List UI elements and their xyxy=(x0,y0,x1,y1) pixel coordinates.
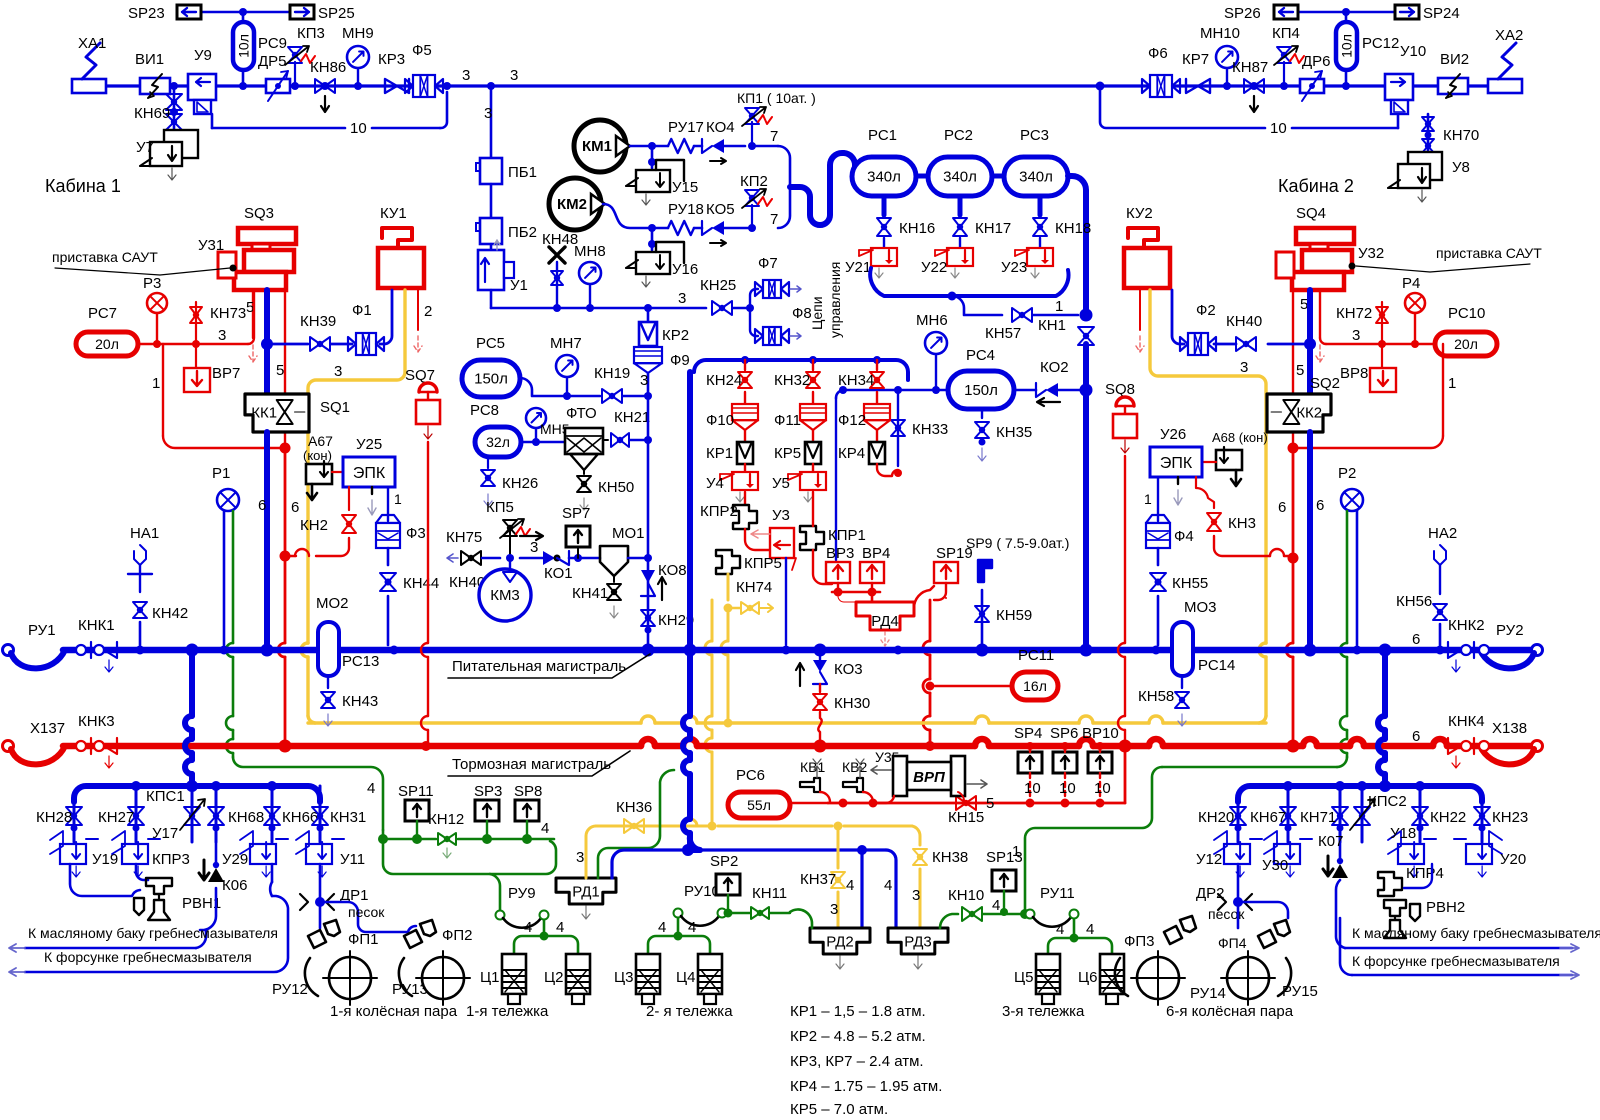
regulator RD3 xyxy=(888,928,948,969)
manifold right xyxy=(1238,780,1482,802)
separator MO3 RC14 xyxy=(1172,599,1235,676)
wire yellow x712 xyxy=(705,600,712,826)
svg-text:Р3: Р3 xyxy=(143,275,161,292)
wire PB1-PB2 xyxy=(490,184,493,218)
svg-text:РУ15: РУ15 xyxy=(1282,983,1318,1000)
svg-text:КН32: КН32 xyxy=(774,372,810,389)
svg-text:У10: У10 xyxy=(1400,43,1426,60)
svg-text:КН43: КН43 xyxy=(342,693,378,710)
wire SQ3 blue artery xyxy=(264,290,270,394)
svg-text:КНК3: КНК3 xyxy=(78,713,115,730)
svg-text:5: 5 xyxy=(986,795,994,812)
valve KN21 xyxy=(603,409,652,447)
wire RD1 yellow xyxy=(576,819,717,878)
green manifold left xyxy=(378,820,554,844)
svg-text:SP8: SP8 xyxy=(514,783,542,800)
svg-text:4: 4 xyxy=(524,919,532,936)
valve KN73 xyxy=(190,302,246,344)
svg-text:РУ14: РУ14 xyxy=(1190,985,1226,1002)
svg-text:КН26: КН26 xyxy=(502,475,538,492)
svg-text:ВИ1: ВИ1 xyxy=(135,51,164,68)
svg-text:КН74: КН74 xyxy=(736,579,772,596)
svg-text:4: 4 xyxy=(367,780,375,797)
svg-text:РС14: РС14 xyxy=(1198,657,1235,674)
wheel pair 1 right xyxy=(416,951,470,1005)
sensor SP26 xyxy=(1224,5,1298,22)
svg-text:КН67: КН67 xyxy=(1250,809,1286,826)
relay KPR5 xyxy=(716,550,782,600)
sensor SP7 xyxy=(562,505,600,562)
artery x1086 xyxy=(1083,344,1089,648)
svg-text:КН38: КН38 xyxy=(932,849,968,866)
red 2 vent KU2 xyxy=(1136,290,1144,352)
svg-text:Ц5: Ц5 xyxy=(1014,969,1033,986)
filter F1 xyxy=(348,290,392,355)
wire U1 to y308 xyxy=(490,290,493,308)
wire RC9 stem xyxy=(242,12,245,22)
sensor SP2 xyxy=(710,853,740,918)
svg-text:У32: У32 xyxy=(1358,245,1384,262)
valve KN24 xyxy=(706,360,752,404)
wire RC3 drop xyxy=(1038,196,1043,215)
cylinder C3 xyxy=(614,954,660,1004)
pipe RC8 line xyxy=(521,438,565,446)
svg-text:20л: 20л xyxy=(95,336,119,352)
check valve KO8 xyxy=(641,558,687,648)
wire SQ3 red5 right xyxy=(276,290,285,445)
pipe RC5 line xyxy=(520,378,600,400)
throttle DR5 xyxy=(258,53,290,101)
unit SQ3 SAUT xyxy=(198,205,296,290)
svg-text:3: 3 xyxy=(334,363,342,380)
svg-text:КМ2: КМ2 xyxy=(557,196,587,213)
device VI1 xyxy=(135,51,170,98)
green feeder right xyxy=(1012,767,1162,910)
svg-text:РС5: РС5 xyxy=(476,335,505,352)
svg-text:К масляному баку гребнесмазыва: К масляному баку гребнесмазывателя xyxy=(1352,925,1600,941)
valve KN31 xyxy=(312,786,366,842)
svg-text:3: 3 xyxy=(462,67,470,84)
red x1293 down xyxy=(1278,452,1299,742)
hose RU11 xyxy=(1026,885,1079,927)
svg-text:КП4: КП4 xyxy=(1272,25,1300,42)
svg-text:У16: У16 xyxy=(672,261,698,278)
valve KN16 xyxy=(877,218,935,248)
svg-text:РС2: РС2 xyxy=(944,127,973,144)
svg-text:КН27: КН27 xyxy=(98,809,134,826)
wire 10-line right xyxy=(1100,86,1398,137)
svg-text:4: 4 xyxy=(884,877,892,894)
svg-text:КУ2: КУ2 xyxy=(1126,205,1153,222)
wire RD1 green xyxy=(598,770,674,878)
svg-text:Р4: Р4 xyxy=(1402,275,1420,292)
svg-text:340л: 340л xyxy=(943,169,977,186)
svg-text:6: 6 xyxy=(1316,497,1324,514)
svg-text:SQ3: SQ3 xyxy=(244,205,274,222)
valve KN12 xyxy=(428,811,464,858)
svg-text:КПР2: КПР2 xyxy=(700,503,738,520)
svg-text:КН50: КН50 xyxy=(598,479,634,496)
svg-text:КВ1: КВ1 xyxy=(800,759,825,775)
device U1 xyxy=(478,240,528,294)
valve KN57 xyxy=(985,298,1078,342)
svg-text:КР4: КР4 xyxy=(838,445,865,462)
unit U26 EPK xyxy=(1150,426,1202,477)
svg-text:РС4: РС4 xyxy=(966,347,995,364)
cylinder C5 xyxy=(1014,954,1060,1004)
svg-text:ХА2: ХА2 xyxy=(1495,27,1523,44)
valve KN34 xyxy=(838,360,884,404)
svg-text:РУ12: РУ12 xyxy=(272,981,308,998)
tank RC11 16l xyxy=(926,647,1059,700)
valve KN59 xyxy=(975,590,1032,645)
blue y850 to RD2 RD3 xyxy=(700,845,896,928)
svg-text:КН39: КН39 xyxy=(300,313,336,330)
valve KN44 xyxy=(380,548,439,645)
svg-text:3: 3 xyxy=(510,67,518,84)
valve KN36 xyxy=(616,799,652,833)
svg-text:4: 4 xyxy=(688,919,696,936)
unit KU1 xyxy=(378,205,424,288)
filter F7 xyxy=(750,255,801,308)
svg-text:SP9 ( 7.5-9.0ат.): SP9 ( 7.5-9.0ат.) xyxy=(966,535,1069,551)
svg-text:ПБ2: ПБ2 xyxy=(508,224,537,241)
svg-text:КНК2: КНК2 xyxy=(1448,617,1485,634)
hose RU1 xyxy=(3,622,66,668)
valve KN75 xyxy=(446,529,500,591)
svg-text:Ф7: Ф7 xyxy=(758,255,778,272)
svg-text:7: 7 xyxy=(770,211,778,228)
filter F9 xyxy=(634,347,690,392)
svg-text:ЭПК: ЭПК xyxy=(353,465,386,482)
valve KN22 xyxy=(1412,786,1466,842)
nozzle HA2 xyxy=(1428,525,1457,594)
node KM3 xyxy=(506,554,514,562)
svg-text:песок: песок xyxy=(348,904,385,920)
wire P2 green xyxy=(1340,511,1347,757)
svg-text:РС1: РС1 xyxy=(868,127,897,144)
check valve KO4 xyxy=(694,119,745,164)
wire RD1 blue out xyxy=(612,844,694,878)
svg-text:10л: 10л xyxy=(236,34,252,58)
unit U25 EPK xyxy=(343,436,395,487)
filter F11 xyxy=(774,404,826,442)
svg-text:Ф10: Ф10 xyxy=(706,412,734,429)
solenoid U5 xyxy=(772,472,826,502)
svg-text:У21: У21 xyxy=(845,259,871,276)
svg-text:КН19: КН19 xyxy=(594,365,630,382)
svg-text:3: 3 xyxy=(830,901,838,918)
svg-text:ВР4: ВР4 xyxy=(862,545,890,562)
wire 1-loop right xyxy=(1288,344,1457,454)
tank RC6 55l xyxy=(728,767,828,818)
svg-text:РС9: РС9 xyxy=(258,35,287,52)
svg-text:приставка САУТ: приставка САУТ xyxy=(52,249,158,265)
svg-text:К форсунке гребнесмазывателя: К форсунке гребнесмазывателя xyxy=(1352,953,1560,969)
safety valve KP4 xyxy=(1272,25,1304,86)
svg-text:Ц6: Ц6 xyxy=(1078,969,1097,986)
svg-text:К форсунке гребнесмазывателя: К форсунке гребнесмазывателя xyxy=(44,949,252,965)
svg-text:КПР3: КПР3 xyxy=(152,851,190,868)
svg-text:КО3: КО3 xyxy=(834,661,863,678)
svg-text:КВ2: КВ2 xyxy=(842,759,867,775)
svg-text:10: 10 xyxy=(1059,780,1076,797)
tank RC7 20l xyxy=(76,305,138,356)
svg-text:КН11: КН11 xyxy=(752,885,787,902)
svg-text:ФП1: ФП1 xyxy=(348,931,379,948)
greaser nozzle line R xyxy=(1340,918,1579,979)
svg-text:4: 4 xyxy=(992,897,1000,914)
label feed main xyxy=(448,654,650,678)
svg-text:7: 7 xyxy=(770,128,778,145)
svg-text:МО1: МО1 xyxy=(612,525,645,542)
yellow main pipe xyxy=(308,716,1266,723)
svg-text:КР5: КР5 xyxy=(774,445,801,462)
svg-text:КН3: КН3 xyxy=(1228,515,1256,532)
svg-text:МН7: МН7 xyxy=(550,335,582,352)
svg-text:(кон): (кон) xyxy=(303,448,332,463)
wire P2 blue xyxy=(1356,511,1359,645)
svg-text:3: 3 xyxy=(640,372,648,389)
svg-text:6: 6 xyxy=(1278,499,1286,516)
pipe y390 RC4 xyxy=(836,386,948,398)
svg-text:У26: У26 xyxy=(1160,426,1186,443)
reducer KR5 xyxy=(774,442,821,472)
coupling KNK1 xyxy=(76,617,117,672)
svg-text:КН15: КН15 xyxy=(948,809,984,826)
svg-text:3: 3 xyxy=(678,290,686,307)
pipe red y803 xyxy=(828,746,1125,808)
sensors SP11 SP3 SP8 xyxy=(398,783,542,839)
pipe y360 manifold xyxy=(694,356,908,380)
safety valve KP5 xyxy=(486,499,530,558)
hose X138 xyxy=(1480,720,1543,764)
nozzle FP1 xyxy=(308,920,379,948)
wire U3 blue down xyxy=(785,558,787,645)
svg-text:Ф12: Ф12 xyxy=(838,412,866,429)
solenoid U17 KPR3 xyxy=(112,825,190,877)
compressor KM3 xyxy=(479,558,531,621)
pipe RC10 line xyxy=(1320,327,1435,348)
valve KN86 xyxy=(310,59,346,112)
wire SP19 down xyxy=(923,583,946,742)
yellow riser left xyxy=(301,290,405,716)
svg-text:КН17: КН17 xyxy=(975,220,1011,237)
green main pipe right xyxy=(1162,757,1347,767)
greaser tank line R xyxy=(1336,880,1600,952)
valve KN18 xyxy=(1033,218,1091,248)
svg-text:РД2: РД2 xyxy=(826,934,854,951)
wire 7-loop xyxy=(752,128,790,228)
hose RU14 xyxy=(1115,958,1226,1002)
svg-text:КР1 – 1,5 – 1.8 атм.: КР1 – 1,5 – 1.8 атм. xyxy=(790,1003,926,1020)
device VR7 xyxy=(184,344,240,392)
gauge MN6 xyxy=(916,312,948,390)
svg-text:4: 4 xyxy=(846,877,854,894)
device U8 xyxy=(1388,152,1470,202)
svg-text:4: 4 xyxy=(1056,921,1064,938)
valve KN28 xyxy=(36,798,82,842)
safety valve KP2 xyxy=(740,173,772,228)
valve KN66 xyxy=(264,786,318,842)
gauge P4 xyxy=(1402,275,1425,344)
pipe RC7 line xyxy=(138,290,254,348)
svg-text:МН9: МН9 xyxy=(342,25,374,42)
svg-text:SQ7: SQ7 xyxy=(405,367,435,384)
label tsepi upravleniya xyxy=(809,262,843,338)
valve KN32 xyxy=(774,360,820,404)
svg-text:Х138: Х138 xyxy=(1492,720,1527,737)
unit SQ4 SAUT xyxy=(1276,205,1384,290)
green RU9 branch xyxy=(490,874,500,910)
valve KN48 xyxy=(542,231,578,308)
valve KN41 xyxy=(572,576,621,618)
svg-text:РУ9: РУ9 xyxy=(508,885,536,902)
label pristavka SAUT L xyxy=(52,249,237,275)
svg-text:КН55: КН55 xyxy=(1172,575,1208,592)
wire P1 green xyxy=(226,511,233,757)
svg-text:КО5: КО5 xyxy=(706,201,735,218)
blue artery x1385 down xyxy=(1378,650,1385,786)
svg-text:РУ18: РУ18 xyxy=(668,201,704,218)
cylinder C1 xyxy=(480,954,526,1004)
wire yellow KN37 xyxy=(800,826,845,928)
hose RU2 xyxy=(1480,622,1543,668)
valve KPS1 xyxy=(146,786,205,842)
svg-text:ВИ2: ВИ2 xyxy=(1440,51,1469,68)
wire EPK vent R xyxy=(1174,477,1182,505)
cylinder C6 xyxy=(1078,954,1124,1004)
svg-text:КН71: КН71 xyxy=(1300,809,1336,826)
device U16 xyxy=(626,228,698,287)
valve KN40 xyxy=(1214,313,1316,351)
svg-text:У3: У3 xyxy=(772,507,790,524)
svg-text:РД3: РД3 xyxy=(904,934,932,951)
svg-text:КП2: КП2 xyxy=(740,173,768,190)
svg-text:150л: 150л xyxy=(474,371,508,388)
throttle DR6 xyxy=(1300,53,1331,101)
nozzle FP2 xyxy=(404,920,473,948)
svg-text:КР2 – 4.8 – 5.2 атм.: КР2 – 4.8 – 5.2 атм. xyxy=(790,1028,926,1045)
svg-text:КН23: КН23 xyxy=(1492,809,1528,826)
svg-text:Ц1: Ц1 xyxy=(480,969,499,986)
svg-text:4: 4 xyxy=(556,919,564,936)
svg-text:РС3: РС3 xyxy=(1020,127,1049,144)
svg-text:Ф1: Ф1 xyxy=(352,302,372,319)
filter F6 xyxy=(1142,45,1180,97)
main pipe y85 right xyxy=(1100,82,1488,90)
svg-text:ФП3: ФП3 xyxy=(1124,933,1155,950)
svg-text:10л: 10л xyxy=(1339,34,1355,58)
svg-text:КН20: КН20 xyxy=(1198,809,1234,826)
svg-text:КН36: КН36 xyxy=(616,799,652,816)
svg-text:КО4: КО4 xyxy=(706,119,735,136)
valve KN50 xyxy=(577,470,634,510)
tank RC2 340l xyxy=(928,127,992,196)
svg-text:КН22: КН22 xyxy=(1430,809,1466,826)
svg-text:SP26: SP26 xyxy=(1224,5,1261,22)
svg-text:КР1: КР1 xyxy=(706,445,733,462)
compressor KM2 xyxy=(549,178,605,230)
valve KN29 xyxy=(641,610,694,634)
svg-text:Кабина 2: Кабина 2 xyxy=(1278,176,1354,196)
svg-text:РД4: РД4 xyxy=(871,613,899,630)
blue artery x192 down xyxy=(185,650,192,786)
wire K06 to tank line xyxy=(200,888,216,930)
svg-text:5: 5 xyxy=(276,362,284,379)
svg-text:КМ1: КМ1 xyxy=(582,138,612,155)
solenoid U20 xyxy=(1454,831,1526,877)
svg-text:SQ1: SQ1 xyxy=(320,399,350,416)
valve KN10 xyxy=(948,887,1030,921)
svg-text:6: 6 xyxy=(1412,631,1420,648)
red 2 vent KU1 xyxy=(414,290,432,352)
wire U5 down xyxy=(813,492,832,584)
solenoid U21 xyxy=(845,248,897,278)
valve KN68 xyxy=(208,786,264,842)
wire SQ4 red5 right xyxy=(1300,290,1324,362)
svg-text:ХА1: ХА1 xyxy=(78,35,106,52)
svg-text:КМ3: КМ3 xyxy=(490,587,520,604)
antenna XA2 xyxy=(1488,27,1523,93)
svg-text:340л: 340л xyxy=(867,169,901,186)
valve KN27 xyxy=(98,786,144,842)
valve KN67 xyxy=(1250,786,1296,842)
coupling KNK4 xyxy=(1448,713,1489,768)
svg-text:3: 3 xyxy=(1240,359,1248,376)
device A68 xyxy=(1212,430,1268,486)
safety valve KP1 xyxy=(737,90,816,146)
gauge MN5 xyxy=(526,408,570,442)
unit PB1 xyxy=(476,158,537,184)
valve KN19 xyxy=(594,365,652,403)
svg-text:4: 4 xyxy=(1086,921,1094,938)
wire RC1 drop xyxy=(882,196,887,215)
device KV1 xyxy=(800,759,830,802)
svg-text:ВР10: ВР10 xyxy=(1082,725,1119,742)
svg-text:3: 3 xyxy=(912,887,920,904)
device VR8 xyxy=(1340,344,1396,392)
svg-text:SQ8: SQ8 xyxy=(1105,381,1135,398)
svg-text:1: 1 xyxy=(394,491,402,507)
sensor SP19 xyxy=(914,545,973,608)
wire 1-loop left xyxy=(152,344,291,454)
svg-text:КН72: КН72 xyxy=(1336,305,1372,322)
solenoid U30 xyxy=(1262,831,1312,877)
filter F8 xyxy=(750,305,812,345)
node artery top xyxy=(1080,309,1093,322)
wire 10-line left xyxy=(212,82,451,137)
device A67 xyxy=(303,433,333,500)
svg-text:16л: 16л xyxy=(1023,678,1047,694)
svg-text:КН87: КН87 xyxy=(1232,59,1268,76)
svg-text:КН44: КН44 xyxy=(403,575,439,592)
hose X137 xyxy=(3,720,66,764)
filter F2 xyxy=(1172,290,1216,355)
regulator RD2 xyxy=(810,928,870,969)
svg-text:3: 3 xyxy=(218,327,226,344)
wire yellow KN38 xyxy=(912,843,968,928)
relay KPR1 xyxy=(800,526,866,550)
wire U11 down xyxy=(315,864,325,907)
svg-text:КН25: КН25 xyxy=(700,277,736,294)
greaser nozzle line L xyxy=(9,864,288,976)
regulator RD4 xyxy=(856,602,914,646)
svg-text:Кабина 1: Кабина 1 xyxy=(45,176,121,196)
svg-text:ФП4: ФП4 xyxy=(1218,935,1247,951)
unit KU2 xyxy=(1124,205,1170,288)
sensor SP24 xyxy=(1395,5,1460,22)
